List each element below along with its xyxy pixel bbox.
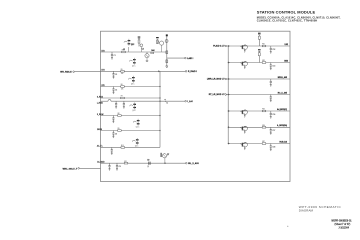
svg-text:R31: R31: [262, 44, 265, 46]
connector circle upper input: [73, 71, 75, 73]
svg-text:J-10/2004: J-10/2004: [338, 227, 349, 230]
svg-text:C17: C17: [272, 130, 275, 132]
junction tick right bus row 2: [228, 62, 230, 64]
svg-text:LWR_LR_MOD I-7: LWR_LR_MOD I-7: [207, 78, 225, 80]
connector circle PLA/D A I-7: [225, 45, 227, 47]
svg-text:R6: R6: [121, 84, 123, 86]
junction tick right bus row 4: [228, 94, 230, 96]
capacitor with ground below wire row 1: [270, 46, 272, 48]
VCC drop resistor row 2: [258, 49, 261, 50]
svg-text:1K: 1K: [123, 49, 125, 51]
registration dot: [287, 226, 288, 227]
wire branch to LA/D connector: [167, 57, 185, 59]
capacitor C4 with ground below wire E: [115, 101, 117, 103]
inline capacitor C11 on wire I: [148, 162, 150, 165]
svg-text:STATION CONTROL MODULE: STATION CONTROL MODULE: [257, 10, 316, 15]
svg-text:L_RA/D: L_RA/D: [97, 101, 104, 104]
svg-text:R5: R5: [121, 69, 123, 71]
svg-text:R7: R7: [121, 96, 123, 98]
transistor Q16 row 5: [240, 111, 242, 112]
capacitor with ground below wire row 2: [270, 63, 272, 65]
junction dot wire F at left bus: [159, 115, 160, 116]
svg-text:R11: R11: [124, 161, 127, 163]
svg-text:C2: C2: [115, 74, 117, 76]
junction dot wire C at left bus: [159, 86, 160, 87]
junction tick right bus row 1: [228, 45, 230, 47]
capacitor with ground below wire row 4: [270, 95, 272, 97]
wire row G: [101, 130, 161, 132]
resistor on wire row 7: [262, 143, 266, 145]
junction tick right bus row 5: [228, 110, 230, 112]
wire row C: [101, 86, 161, 88]
svg-text:C3: C3: [115, 89, 117, 91]
capacitor C5 with ground below wire E: [123, 101, 125, 103]
svg-text:S_RA/D: S_RA/D: [97, 95, 104, 98]
wire from connector to right bus row 4: [226, 94, 228, 96]
wire row 4 right block: [228, 94, 290, 96]
svg-text:C9: C9: [147, 160, 149, 162]
wire row E with hop: [101, 100, 109, 102]
transistor Q3 hanging below wire A: [145, 54, 149, 58]
resistor on wire row 2: [262, 62, 266, 64]
svg-text:10K: 10K: [121, 73, 124, 75]
wire upper input to border: [75, 71, 101, 73]
resistor on wire row 5: [262, 110, 266, 112]
transistor Q12 row 1: [240, 46, 242, 47]
svg-text:B75: B75: [102, 85, 105, 87]
transistor cluster Q8 below wire E: [130, 105, 132, 106]
svg-text:DIAGRAM: DIAGRAM: [299, 209, 314, 213]
capacitor with ground below wire row 5: [270, 111, 272, 113]
svg-text:B73: B73: [102, 50, 105, 52]
transistor Q2 small circle: [140, 44, 143, 47]
wire from connector to right bus row 3: [226, 78, 228, 80]
junction tick right bus row 3: [228, 78, 230, 80]
capacitor with ground below wire row 3: [270, 79, 272, 81]
VCC drop with resistor R2 feeding transistor Q4: [156, 37, 159, 38]
wire lower input to border: [80, 167, 101, 169]
svg-text:C12: C12: [272, 49, 275, 51]
svg-text:C16: C16: [272, 114, 275, 116]
connector circle LA/D: [185, 57, 187, 59]
svg-text:R36: R36: [262, 125, 265, 127]
svg-text:A4_MOD(C): A4_MOD(C): [277, 108, 287, 111]
resistor R21 on wire A: [122, 51, 126, 53]
wire row D: [101, 97, 161, 99]
transistor Q5 circle on vertical branch: [165, 40, 168, 43]
svg-text:LA/D I: LA/D I: [187, 57, 193, 60]
vertical branch at x=166.8 with transistor Q5: [166, 36, 168, 66]
resistor R22 on wire B: [121, 71, 125, 73]
svg-text:C13: C13: [272, 65, 275, 67]
svg-text:RC_A_A05: RC_A_A05: [278, 91, 287, 94]
svg-text:b: b: [167, 102, 168, 104]
capacitor C6 with ground below wire F: [112, 116, 114, 118]
capacitor C3 with ground below wire C: [113, 87, 115, 89]
resistor R23 on wire C: [121, 86, 125, 88]
connector circle WL_5_A03: [186, 162, 188, 164]
wire row 3 right block: [228, 78, 290, 80]
capacitor C10 with ground below wire I: [116, 163, 118, 165]
svg-text:WH1_0014 I-7: WH1_0014 I-7: [63, 167, 78, 170]
svg-text:C18: C18: [272, 146, 275, 148]
svg-text:AC_MOD: AC_MOD: [97, 161, 105, 164]
svg-text:A_MOD(2A): A_MOD(2A): [277, 124, 287, 127]
svg-text:RT_LR_MOD I-7: RT_LR_MOD I-7: [209, 94, 226, 96]
svg-text:AC_/7+: AC_/7+: [97, 145, 103, 148]
connector circle RT_LR_MOD I-7: [225, 94, 227, 96]
wire row 2 right block: [228, 62, 290, 64]
wire row F: [101, 115, 161, 117]
svg-text:R_RA/D I: R_RA/D I: [188, 70, 197, 73]
svg-text:B6/D6: B6/D6: [97, 129, 102, 131]
svg-text:B5/4: B5/4: [284, 59, 288, 62]
junction dot wire E at left bus: [159, 101, 160, 102]
svg-text:R35: R35: [262, 109, 265, 111]
wire row B: [101, 70, 186, 72]
svg-text:WH_RD14 I: WH_RD14 I: [60, 71, 72, 74]
wire row I: [101, 162, 186, 164]
arrow terminal below vertical branch: [166, 66, 168, 68]
svg-text:B44: B44: [151, 50, 154, 52]
svg-text:10K: 10K: [121, 88, 124, 90]
junction dot wire D at left bus: [159, 97, 160, 98]
svg-text:.1: .1: [147, 166, 148, 168]
connector circle I_LA: [185, 100, 187, 102]
transistor cluster Q1 above wire A: [124, 41, 126, 42]
capacitor C2 with ground below wire B: [113, 71, 115, 73]
transistor Q13 row 2: [240, 63, 242, 64]
svg-text:S_RA/W: S_RA/W: [97, 113, 104, 116]
wire row 1 right block: [228, 45, 290, 47]
resistor R4 on vertical branch: [166, 60, 168, 63]
junction dot on wire I: [164, 163, 165, 164]
svg-text:R37: R37: [262, 141, 265, 143]
wire row A: [101, 51, 167, 53]
resistor R28 on wire I: [124, 162, 128, 164]
connector circle LWR_LR_MOD I-7: [225, 78, 227, 80]
capacitor C1 with ground below wire A: [111, 52, 113, 54]
transistor Q11 below bus end: [161, 153, 162, 157]
junction dot wire G at left bus: [159, 130, 160, 131]
wire row 6 right block: [228, 126, 290, 128]
resistor R25 on wire F: [118, 115, 122, 117]
capacitor with ground below wire row 6: [270, 127, 272, 129]
svg-text:R8: R8: [118, 113, 120, 115]
transistor cluster Q6 between rows A and B: [129, 60, 131, 61]
capacitor C7 with ground below wire G: [112, 131, 114, 133]
svg-text:I_LA I: I_LA I: [187, 100, 193, 103]
wire from connector to right bus row 1: [226, 45, 228, 47]
resistor R26 on wire G: [118, 130, 122, 132]
wire row 7 right block: [228, 143, 290, 145]
capacitor C9 with ground below wire I: [109, 163, 111, 165]
resistor R24 on wire D: [121, 97, 125, 99]
svg-text:CLN0001E, CLA7001C, CLN7402C,: CLN0001E, CLA7001C, CLN7402C, TTN4000H: [257, 19, 318, 22]
svg-text:L5/2: L5/2: [285, 44, 288, 46]
junction tick right bus row 6: [228, 126, 230, 128]
svg-text:MFLB_A05: MFLB_A05: [278, 76, 287, 79]
main schematic border frame: [101, 31, 291, 181]
resistor R3 on vertical branch: [166, 51, 168, 54]
capacitor C8 with ground below wire H: [111, 147, 113, 149]
connector circle lower input: [78, 168, 80, 170]
svg-text:C4: C4: [142, 48, 144, 50]
svg-text:C6: C6: [115, 133, 117, 135]
connector circle R_RA/D: [185, 71, 187, 73]
VCC drop with resistor R1 feeding Q2 on wire A: [138, 37, 141, 38]
transistor cluster Q10 below wire G: [132, 140, 134, 141]
svg-text:R9: R9: [118, 128, 120, 130]
svg-text:WL_5_A03: WL_5_A03: [188, 162, 199, 165]
junction tick on wire B at left bus: [158, 70, 160, 72]
transistor Q18 row 7: [240, 144, 242, 145]
junction tick right bus row 7: [228, 143, 230, 145]
svg-text:Q7: Q7: [167, 154, 169, 156]
svg-text:C8: C8: [119, 166, 121, 168]
VCC drop resistor row 1: [258, 33, 261, 34]
resistor on wire row 6: [262, 127, 266, 129]
wire row 5 right block: [228, 110, 290, 112]
svg-text:RCB_BA: RCB_BA: [280, 140, 288, 143]
wire row H: [101, 146, 161, 148]
transistor Q4 above wire A: [160, 41, 164, 45]
right bus vertical: [227, 46, 229, 144]
transistor Q17 row 6: [240, 127, 242, 128]
capacitor with ground below wire row 7: [270, 144, 272, 146]
left bus vertical: [159, 71, 161, 147]
svg-text:R10: R10: [121, 145, 124, 147]
svg-text:R32: R32: [262, 60, 265, 62]
resistor on wire row 1: [262, 45, 266, 47]
svg-text:PLA/D A I-7: PLA/D A I-7: [213, 44, 225, 47]
svg-text:C1: C1: [114, 55, 116, 57]
resistor R27 on wire H: [121, 147, 125, 149]
transistor cluster Q9 below wire F: [133, 121, 135, 122]
transistor cluster Q7 below wire B: [128, 78, 130, 79]
svg-text:B74: B74: [102, 70, 105, 72]
